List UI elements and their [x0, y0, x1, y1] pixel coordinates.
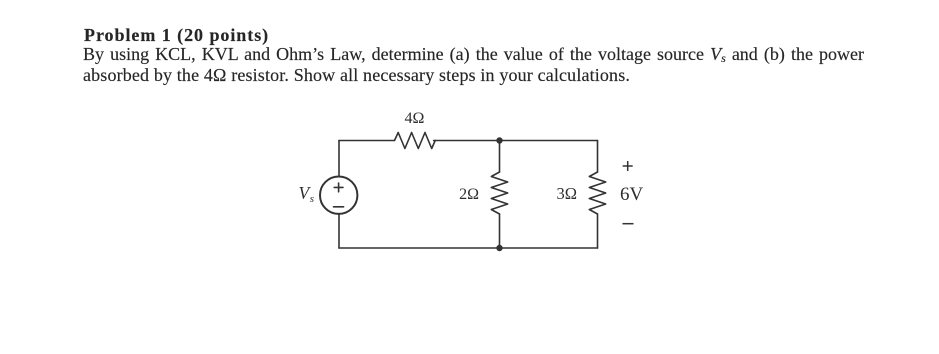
svg-text:6V: 6V — [620, 184, 644, 205]
svg-text:2Ω: 2Ω — [459, 186, 479, 203]
wire: top-left horizontal segment — [339, 140, 394, 142]
polarity plus (right branch) — [623, 161, 633, 171]
svg-text:4Ω: 4Ω — [405, 110, 425, 127]
wire: middle branch upper segment — [499, 141, 501, 173]
resistor R 2-ohm (vertical zigzag) — [491, 172, 507, 214]
wire: middle branch lower segment — [499, 214, 501, 248]
wire: left vertical lower segment — [338, 214, 340, 248]
polarity minus (right branch) — [623, 223, 634, 225]
wire: right branch lower segment — [597, 214, 599, 248]
voltage source Vs (circle) — [320, 177, 357, 214]
node: bottom junction dot — [496, 245, 502, 251]
wire: right branch upper segment — [597, 141, 599, 173]
wire: left vertical upper segment — [338, 141, 340, 177]
plus sign inside source — [334, 183, 343, 192]
resistor R 3-ohm (vertical zigzag) — [589, 172, 605, 214]
resistor R 4-ohm (horizontal zigzag) — [395, 133, 436, 149]
svg-text:Vs: Vs — [299, 183, 314, 205]
node: top junction dot — [496, 137, 502, 143]
wire: top-right horizontal segment — [434, 140, 598, 142]
wire: bottom horizontal — [339, 247, 598, 249]
minus sign inside source — [334, 206, 344, 208]
svg-text:3Ω: 3Ω — [556, 184, 577, 203]
problem statement text — [84, 25, 269, 45]
